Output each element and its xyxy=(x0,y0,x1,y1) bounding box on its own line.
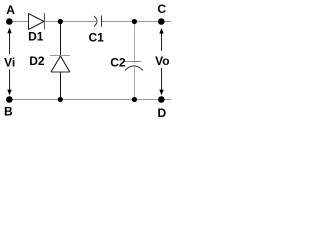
svg-text:C1: C1 xyxy=(89,31,105,45)
svg-text:Vo: Vo xyxy=(155,54,169,68)
svg-text:D: D xyxy=(158,106,167,120)
svg-text:Vi: Vi xyxy=(4,56,15,70)
svg-text:C: C xyxy=(157,2,166,16)
svg-text:C2: C2 xyxy=(110,56,126,70)
svg-text:B: B xyxy=(4,105,13,119)
svg-text:D1: D1 xyxy=(28,30,44,44)
svg-text:A: A xyxy=(6,3,15,17)
svg-text:D2: D2 xyxy=(29,54,45,68)
